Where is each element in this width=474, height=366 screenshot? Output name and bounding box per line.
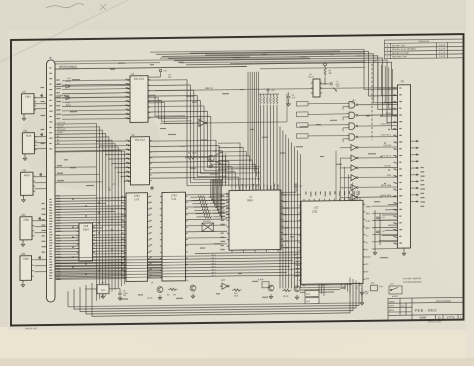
op-amp U15 xyxy=(220,283,229,289)
svg-text:ADDED 10-32 DR BRKT: ADDED 10-32 DR BRKT xyxy=(392,48,417,51)
wire bus bottom long lines xyxy=(55,255,296,258)
svg-text:C24: C24 xyxy=(382,217,385,219)
svg-text:WPRT: WPRT xyxy=(366,257,372,259)
P2 right arrow stubs xyxy=(411,140,417,142)
svg-text:200K: 200K xyxy=(192,153,197,155)
pencil scribble top left xyxy=(46,4,84,9)
wire bus U1 outputs right then down xyxy=(148,79,187,82)
ROM U13 2764 xyxy=(126,193,148,282)
svg-text:C25: C25 xyxy=(382,231,385,233)
svg-text:U21: U21 xyxy=(21,253,26,256)
U13 pin numbers xyxy=(122,196,124,197)
wires U17 to P2 lower pins xyxy=(372,205,398,207)
buffer 4050 box with cross xyxy=(202,223,214,232)
P2 pin ticks and numbers xyxy=(395,88,397,90)
svg-text:MOTOR ON: MOTOR ON xyxy=(382,156,392,158)
U7 left pin labels xyxy=(221,195,224,196)
edge connector pin numbers xyxy=(49,67,51,68)
svg-text:WRITE GATE: WRITE GATE xyxy=(381,194,392,197)
svg-text:7406: 7406 xyxy=(23,258,29,261)
inverter U9 7403 xyxy=(22,94,35,114)
U17 left pin stubs lower xyxy=(296,253,302,255)
connector P2 body xyxy=(398,85,411,248)
svg-text:TMS2: TMS2 xyxy=(366,213,371,215)
analog switch U16 box xyxy=(305,298,319,304)
transistor Q1 xyxy=(208,155,214,161)
wires top bus to P2 xyxy=(150,49,398,92)
svg-text:PCB 8004 300001B: PCB 8004 300001B xyxy=(403,280,422,283)
misc verticals top middle xyxy=(247,72,249,157)
sheet border frame xyxy=(11,34,464,325)
wires U7 right to U17 left xyxy=(281,194,301,196)
svg-text:U11: U11 xyxy=(23,130,28,133)
capacitors near left ICs xyxy=(40,94,43,97)
svg-text:CONT OSC 5: CONT OSC 5 xyxy=(381,135,391,137)
P2 lower pin stub wires xyxy=(388,204,398,206)
capacitor C12 47uF xyxy=(118,289,122,295)
pullup resistor pack R-pack xyxy=(260,94,262,96)
wire bus U2 outputs right xyxy=(150,139,217,142)
transistor Q2 xyxy=(157,287,163,293)
edge connector right signal labels xyxy=(56,195,60,196)
horizontals U12 to U7 xyxy=(186,193,228,196)
U7 top pin numbers vertical xyxy=(231,184,232,188)
transistor Q5 xyxy=(294,286,300,292)
power +5V at U1 top xyxy=(159,69,161,71)
arrow symbol right of C7 xyxy=(333,88,337,92)
wires U17 bottom down xyxy=(318,284,320,292)
svg-text:READY: READY xyxy=(366,205,373,208)
svg-text:17774: 17774 xyxy=(447,315,455,319)
rpack top rail xyxy=(259,93,280,95)
svg-text:U14 4050: U14 4050 xyxy=(203,221,211,223)
svg-text:CHL.2: CHL.2 xyxy=(211,261,216,263)
resistor R1 200K xyxy=(185,156,197,159)
svg-text:CHL.0: CHL.0 xyxy=(211,255,216,257)
svg-text:7-2-74: 7-2-74 xyxy=(439,56,446,58)
svg-text:7805: 7805 xyxy=(101,290,107,292)
staircase U1 outputs detail xyxy=(148,95,185,116)
inverter U20 7406 xyxy=(20,217,32,240)
svg-text:DIR SEL: DIR SEL xyxy=(384,165,391,167)
buffer B5 xyxy=(349,184,358,190)
wires connector to U1 inputs xyxy=(62,79,130,82)
inverter U10 4009 xyxy=(21,172,33,195)
ROM U12 2764 xyxy=(162,192,186,281)
nand gate G3 xyxy=(346,123,357,130)
svg-text:5104: 5104 xyxy=(83,229,89,232)
buffer B1 xyxy=(349,144,358,150)
revision table xyxy=(385,39,464,59)
svg-text:K3 05K: K3 05K xyxy=(283,296,289,298)
buffer B2 xyxy=(349,155,358,161)
paper stains xyxy=(20,90,160,190)
U7 right pin labels xyxy=(284,194,287,195)
svg-text:CHL.1: CHL.1 xyxy=(211,258,216,260)
verticals from buffers to U17 top xyxy=(335,151,337,201)
PAL chip U1 xyxy=(130,76,148,123)
ground regulator xyxy=(101,294,105,299)
svg-text:CONT OSC 7: CONT OSC 7 xyxy=(381,124,391,126)
svg-text:ADDED 8-12 RIP: ADDED 8-12 RIP xyxy=(392,52,409,55)
buffer B4 xyxy=(349,175,358,181)
svg-text:U12: U12 xyxy=(172,198,177,201)
ground Q1 xyxy=(209,163,213,168)
wire bus between U7 and U17 xyxy=(279,126,281,288)
in-frame paper tone xyxy=(8,30,466,330)
svg-text:CHL.7: CHL.7 xyxy=(211,275,216,277)
svg-text:U13: U13 xyxy=(135,198,140,201)
buffer B6 xyxy=(349,194,358,200)
svg-text:REVISIONS: REVISIONS xyxy=(418,41,430,43)
svg-text:4016: 4016 xyxy=(306,301,310,303)
svg-text:U10: U10 xyxy=(22,169,27,172)
svg-text:OFF: OFF xyxy=(365,294,368,296)
paper right strip xyxy=(466,0,474,366)
inverter U11 7414 xyxy=(22,133,34,154)
wire WRITE ENABLE xyxy=(55,67,247,70)
diode CR5 and caps right of U17 xyxy=(375,210,380,250)
svg-text:U20: U20 xyxy=(21,214,26,217)
diode D6 vertical xyxy=(360,288,363,300)
resistor K3 xyxy=(282,289,292,292)
U7 left pin lower labels xyxy=(221,233,224,234)
wire bus vertical left bundle xyxy=(55,123,97,301)
wire bus mid lines xyxy=(55,233,126,236)
svg-text:.22uF: .22uF xyxy=(379,286,383,288)
svg-text:ADDED 7415: ADDED 7415 xyxy=(392,44,406,47)
svg-text:A-45HP: A-45HP xyxy=(392,295,399,298)
svg-text:CHL.6: CHL.6 xyxy=(211,272,216,274)
svg-text:U17: U17 xyxy=(314,206,319,209)
resistor R4 xyxy=(168,288,178,291)
mid connector signals xyxy=(55,166,97,169)
svg-text:+5V: +5V xyxy=(163,70,167,72)
wire bus address lines from connector xyxy=(55,194,97,197)
svg-text:A-4048: A-4048 xyxy=(258,278,264,281)
svg-text:R10: R10 xyxy=(371,283,374,285)
top rail wires xyxy=(55,58,310,61)
svg-text:R11: R11 xyxy=(167,294,170,296)
svg-text:74123: 74123 xyxy=(308,77,314,79)
junction dots in bus area xyxy=(72,198,73,199)
svg-text:K3 05K: K3 05K xyxy=(147,298,153,300)
svg-text:CHL.5: CHL.5 xyxy=(211,269,216,271)
labels right of P2 arrows xyxy=(421,167,424,168)
svg-text:4-1-74: 4-1-74 xyxy=(439,49,446,51)
wire PWRBTN with diode CR2 xyxy=(55,97,64,99)
svg-text:REVISED CAP: REVISED CAP xyxy=(392,56,407,59)
one-shot U6 74123 xyxy=(313,79,320,97)
buffer B3 xyxy=(349,165,358,171)
P2 ground xyxy=(402,251,406,256)
nand gate G4 xyxy=(346,134,357,141)
svg-text:C1/2: C1/2 xyxy=(390,283,394,285)
wires below array xyxy=(195,252,301,253)
U1 U2 pin numbers xyxy=(126,79,128,80)
nand gate G2 xyxy=(346,112,357,119)
svg-text:LOW CUR: LOW CUR xyxy=(383,145,392,147)
wire staircase U2 to U17 xyxy=(218,143,240,191)
dashed shield line xyxy=(371,64,373,140)
svg-text:CHECK: CHECK xyxy=(389,305,394,307)
power +5V at U7 top right xyxy=(295,184,298,187)
voltage regulator U19 7805 xyxy=(97,285,109,294)
svg-text:WIRE: WIRE xyxy=(420,316,427,320)
vertical bundle right of U2 xyxy=(218,149,220,179)
switch S1 xyxy=(389,286,402,294)
svg-text:Q3: Q3 xyxy=(186,280,188,282)
svg-text:SYNC: SYNC xyxy=(366,221,372,223)
resistor array RN2 zigzags xyxy=(197,196,207,199)
wire WATCH xyxy=(155,87,398,90)
P2 internal pin numbers xyxy=(399,87,401,88)
svg-text:CHL.3: CHL.3 xyxy=(211,264,216,266)
inverter U21 7406 xyxy=(20,256,32,281)
svg-text:PCB NOs 800001E: PCB NOs 800001E xyxy=(403,278,422,280)
svg-text:4069: 4069 xyxy=(221,280,225,282)
analog switch U15 box xyxy=(305,290,319,296)
svg-text:7403: 7403 xyxy=(25,96,31,99)
resistor array output labels xyxy=(226,193,229,194)
connector U1 input labels xyxy=(56,79,59,80)
scattered small annotation texts xyxy=(150,64,154,65)
svg-text:2-8-74: 2-8-74 xyxy=(439,45,446,47)
P2 pin junction dots xyxy=(388,88,389,89)
edge connector left pin labels xyxy=(41,87,45,88)
rpack wires down to U7 xyxy=(260,105,262,190)
resistor K8 above U6 xyxy=(324,67,326,76)
op-amp U5 4069 xyxy=(197,120,207,127)
decoupling caps between ROMs xyxy=(150,186,154,190)
misc verticals right of center going to P2 top xyxy=(377,63,379,89)
svg-text:WATCH: WATCH xyxy=(205,87,213,90)
feed bundle horizontal entry xyxy=(210,179,212,181)
wire bus wrap-around bottom xyxy=(68,283,362,306)
wire bus vertical left bundle stubs to U2 xyxy=(97,140,131,142)
capacitor C7 xyxy=(287,92,291,101)
svg-text:4-20: 4-20 xyxy=(401,305,404,307)
svg-text:PAL.PLA: PAL.PLA xyxy=(135,139,145,142)
nand gate G1 xyxy=(346,102,357,109)
wires below U17 xyxy=(300,284,352,287)
svg-text:2702: 2702 xyxy=(312,210,318,213)
resistor R5 K10 xyxy=(232,289,242,292)
RAM U18 5104 xyxy=(79,223,93,261)
svg-text:Cox Comp: Cox Comp xyxy=(436,299,451,303)
svg-text:7406: 7406 xyxy=(23,219,29,222)
wires array to right xyxy=(208,196,226,198)
svg-text:WRITE DATA: WRITE DATA xyxy=(381,184,392,187)
transistor Q3 xyxy=(190,285,196,291)
wires left ICs to connector xyxy=(35,97,47,99)
PAL chip U2 xyxy=(131,137,150,185)
paper lower cream strip xyxy=(0,327,474,366)
svg-text:7414: 7414 xyxy=(26,135,32,138)
resistor array dense vertical feed bundle xyxy=(210,179,212,197)
capacitor C7 right of U6 xyxy=(325,82,332,86)
svg-text:990X: 990X xyxy=(247,199,253,202)
svg-text:WRITE ENABLE: WRITE ENABLE xyxy=(59,65,77,68)
svg-text:CHL.4: CHL.4 xyxy=(211,266,216,268)
wire bus lower lines xyxy=(55,259,162,260)
crease top left xyxy=(0,0,128,62)
svg-text:4016: 4016 xyxy=(306,294,310,296)
title block xyxy=(388,297,463,320)
svg-text:6-1-74: 6-1-74 xyxy=(439,52,446,54)
wire WAIT with diode CR1 xyxy=(55,85,64,87)
svg-text:4009: 4009 xyxy=(24,174,30,177)
edge connector J1 stadium body xyxy=(47,60,56,302)
ROM U17 2702 xyxy=(301,200,363,284)
svg-text:500: 500 xyxy=(173,294,176,296)
shading bottom edge xyxy=(0,358,474,366)
U1 input arrows xyxy=(128,79,130,81)
svg-text:Q2: Q2 xyxy=(151,282,153,284)
svg-text:PAL.PLA: PAL.PLA xyxy=(134,78,144,81)
A-4048 box xyxy=(262,282,269,288)
U17 top pin labels vertical xyxy=(305,192,306,195)
capacitor C23 47uF xyxy=(371,285,378,291)
svg-text:U19: U19 xyxy=(101,282,104,284)
svg-text:PEB - DEC: PEB - DEC xyxy=(415,309,438,313)
svg-text:R1: R1 xyxy=(188,153,190,155)
svg-text:PB6040-1047: PB6040-1047 xyxy=(25,328,38,330)
CPU U7 990X xyxy=(229,190,281,250)
extra top horizontal wires xyxy=(55,63,160,64)
svg-text:Vcc: Vcc xyxy=(366,235,369,237)
transistor Q4 xyxy=(268,285,274,291)
